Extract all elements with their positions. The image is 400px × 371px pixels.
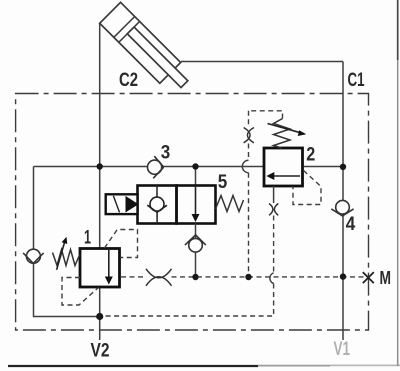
hydraulic cylinder (tilted 45°) [100, 2, 194, 96]
pilot line valve 1 upper-right loop (dashed) [105, 230, 138, 258]
svg-text:5: 5 [218, 172, 228, 193]
wire main line from C2 junction to valve 2 inlet [34, 166, 265, 168]
orifice (pilot restrictor) [146, 269, 172, 286]
check valve 3 (on main line) [148, 156, 164, 178]
photo border (decorative) [8, 365, 258, 367]
pilot loop valve 2 right (dashed) [293, 171, 321, 205]
junction node (C2 x main line) [97, 163, 103, 169]
svg-text:3: 3 [161, 143, 171, 164]
junction node (pilot rail x vent line) [245, 274, 251, 280]
junction node (pilot rail x valve5 outlet) [192, 274, 198, 280]
svg-text:1: 1 [84, 228, 91, 249]
wire C2 line (cylinder cap end down to V2) [99, 23, 101, 340]
svg-text:V1: V1 [334, 338, 351, 360]
valve block enclosure (dash-dot boundary) [16, 94, 369, 331]
svg-text:V2: V2 [91, 340, 110, 362]
wire crossing hop (drain over pilot rail) [270, 273, 274, 284]
wire rod end to C1 corner [181, 61, 343, 63]
wire valve 5 inlet stub [195, 167, 197, 186]
wire valve 2 outlet to C1 junction [303, 166, 344, 168]
wire crossing hop (vent line over main line) [242, 160, 248, 172]
junction node (valve 5 inlet) [192, 163, 198, 169]
pilot line (dashed, valve1 to M port) [121, 276, 364, 278]
counterbalance valve 1 [53, 237, 120, 287]
drain line (dashed, valve 2 to V2 junction) [100, 216, 274, 317]
check valve (valve 5 outlet) [185, 235, 206, 252]
wire left bypass branch (down through check valve to V2 junction) [34, 167, 100, 317]
pilot/vent line valve 2 (dashed, via restrictor to pilot rail) [249, 111, 283, 277]
check valve 4 (on C1 branch) [331, 200, 353, 216]
svg-text:C1: C1 [348, 70, 365, 91]
junction node (V2 line x drain) [96, 313, 103, 320]
junction node (pilot rail x C1 branch) [340, 273, 346, 279]
svg-text:M: M [379, 268, 391, 288]
wire valve 5 outlet (down to pilot check) [195, 224, 197, 278]
relief valve 2 [264, 119, 306, 187]
orifice (vent restrictor) [244, 128, 254, 143]
junction node (C1 x main line) [340, 164, 346, 170]
svg-text:2: 2 [306, 145, 315, 166]
pilot line valve 1 lower-left loop (dashed) [62, 278, 99, 306]
wire C1 line (down to V1) [342, 62, 344, 341]
solenoid valve 5 (2/2 poppet valve) [106, 186, 244, 224]
svg-text:4: 4 [346, 214, 356, 235]
valve 2 drain stub [273, 186, 275, 203]
check valve (left bypass) [23, 249, 43, 263]
svg-text:C2: C2 [119, 70, 138, 91]
orifice (drain restrictor) [269, 204, 278, 216]
measuring port M (plugged) [363, 272, 374, 283]
